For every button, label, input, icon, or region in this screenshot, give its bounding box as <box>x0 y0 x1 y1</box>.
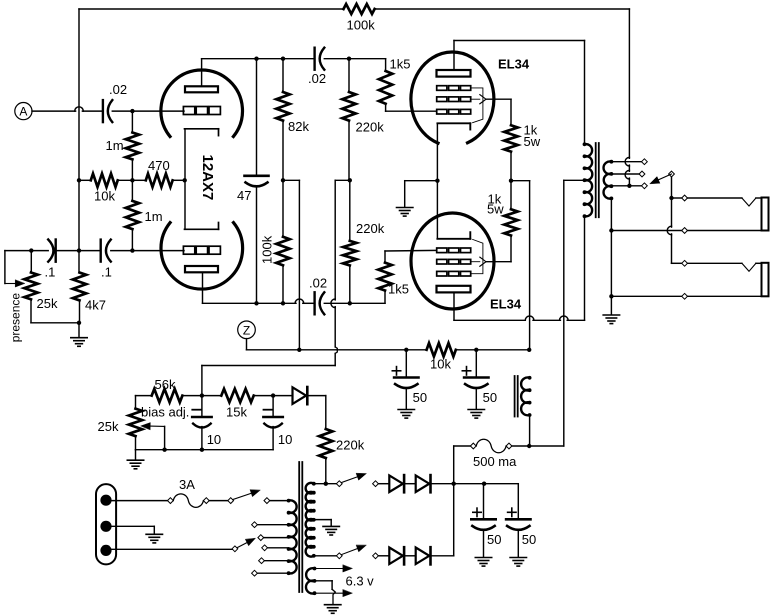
svg-text:10: 10 <box>207 432 221 447</box>
svg-text:EL34: EL34 <box>490 297 522 312</box>
svg-text:.1: .1 <box>45 265 56 280</box>
svg-text:25k: 25k <box>37 296 58 311</box>
svg-text:220k: 220k <box>356 120 385 135</box>
svg-text:10k: 10k <box>430 356 451 371</box>
svg-text:6.3 v: 6.3 v <box>346 574 375 589</box>
svg-text:.02: .02 <box>309 276 327 291</box>
svg-text:47: 47 <box>237 188 251 203</box>
svg-text:1k5: 1k5 <box>388 281 409 296</box>
svg-text:25k: 25k <box>98 419 119 434</box>
svg-text:presence: presence <box>9 293 23 343</box>
svg-text:3A: 3A <box>179 477 195 492</box>
svg-text:500 ma: 500 ma <box>473 454 517 469</box>
svg-text:.02: .02 <box>308 71 326 86</box>
svg-text:56k: 56k <box>155 377 176 392</box>
svg-text:10k: 10k <box>94 189 115 204</box>
svg-text:4k7: 4k7 <box>85 298 106 313</box>
svg-text:220k: 220k <box>336 438 365 453</box>
svg-text:EL34: EL34 <box>498 57 530 72</box>
svg-text:1m: 1m <box>145 209 163 224</box>
svg-text:15k: 15k <box>226 405 247 420</box>
svg-text:.02: .02 <box>109 82 127 97</box>
svg-text:5w: 5w <box>524 134 541 149</box>
svg-text:82k: 82k <box>288 119 309 134</box>
svg-text:100k: 100k <box>347 18 376 33</box>
svg-text:10: 10 <box>278 432 292 447</box>
svg-text:50: 50 <box>487 532 501 547</box>
svg-text:50: 50 <box>413 390 427 405</box>
svg-text:1k5: 1k5 <box>390 57 411 72</box>
svg-text:bias adj.: bias adj. <box>141 405 189 420</box>
svg-text:470: 470 <box>148 158 170 173</box>
svg-text:50: 50 <box>483 390 497 405</box>
svg-text:A: A <box>19 105 27 119</box>
svg-text:Z: Z <box>243 323 250 337</box>
svg-text:1m: 1m <box>106 138 124 153</box>
svg-text:50: 50 <box>522 532 536 547</box>
svg-text:100k: 100k <box>260 235 275 264</box>
svg-text:5w: 5w <box>487 202 504 217</box>
svg-text:12AX7: 12AX7 <box>199 155 216 201</box>
svg-text:.1: .1 <box>101 265 112 280</box>
svg-text:220k: 220k <box>356 221 385 236</box>
